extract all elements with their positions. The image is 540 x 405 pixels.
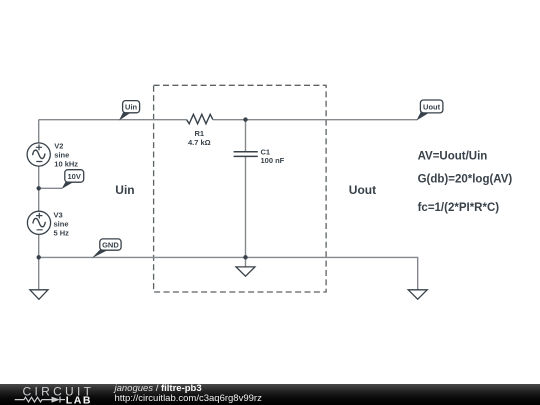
svg-text:sine: sine: [54, 220, 69, 229]
svg-text:4.7 kΩ: 4.7 kΩ: [188, 138, 211, 147]
svg-text:G(db)=20*log(AV): G(db)=20*log(AV): [418, 173, 513, 185]
svg-text:100 nF: 100 nF: [261, 156, 285, 165]
svg-text:V3: V3: [54, 211, 63, 220]
svg-text:R1: R1: [195, 129, 205, 138]
svg-text:Uout: Uout: [349, 183, 376, 197]
svg-text:fc=1/(2*PI*R*C): fc=1/(2*PI*R*C): [418, 202, 500, 214]
svg-text:10V: 10V: [68, 172, 81, 181]
svg-text:Uin: Uin: [125, 103, 138, 112]
svg-text:sine: sine: [54, 150, 69, 159]
svg-text:5 Hz: 5 Hz: [54, 229, 70, 238]
svg-text:Uout: Uout: [423, 102, 441, 111]
svg-text:Uin: Uin: [115, 183, 134, 197]
svg-text:V2: V2: [54, 141, 63, 150]
svg-text:10 kHz: 10 kHz: [54, 159, 78, 168]
svg-text:AV=Uout/Uin: AV=Uout/Uin: [418, 151, 488, 163]
svg-text:GND: GND: [102, 241, 119, 250]
svg-text:LAB: LAB: [66, 395, 92, 405]
